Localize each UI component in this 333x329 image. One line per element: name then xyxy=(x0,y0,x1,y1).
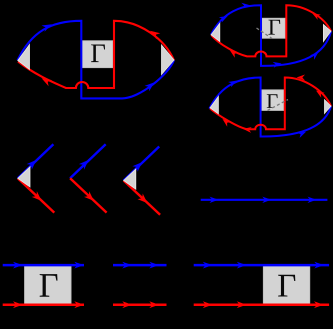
D2 dashed cut line xyxy=(268,100,289,111)
bottom-left red line xyxy=(3,301,84,308)
chevron V3 red outgoing line xyxy=(124,181,161,215)
chevron V3 gray triangle xyxy=(124,169,136,189)
chevron V1 blue incoming line xyxy=(18,144,54,178)
bottom-right red line xyxy=(194,301,329,308)
bottom-left blue line xyxy=(3,262,84,269)
long blue propagator line xyxy=(201,197,328,203)
D2 Gamma box xyxy=(260,90,283,111)
bottom-middle blue line xyxy=(113,262,167,269)
D0 right vertex triangle xyxy=(162,45,175,75)
D2 right vertex triangle xyxy=(325,100,332,114)
bottom-right Gamma box xyxy=(263,265,310,305)
D1 right vertex triangle xyxy=(323,25,331,42)
D2 blue line xyxy=(209,78,331,139)
D1 Gamma box xyxy=(262,18,285,38)
D1 left vertex triangle xyxy=(211,23,220,41)
D2 left vertex triangle xyxy=(210,96,218,113)
chevron V2 blue incoming line xyxy=(70,144,106,178)
bottom-right blue line xyxy=(194,262,329,269)
D0 red hole line with hop over blue xyxy=(18,21,174,88)
D1 blue line xyxy=(211,3,331,68)
chevron V1 red outgoing line xyxy=(18,178,55,212)
D1 dashed cut line xyxy=(257,28,273,39)
chevron V2 red outgoing line xyxy=(70,178,107,212)
chevron V1 gray triangle xyxy=(18,167,30,187)
bottom-middle red line xyxy=(113,301,167,308)
bottom-left Gamma box xyxy=(25,265,72,305)
D1 red line with hop xyxy=(211,5,331,58)
chevron V3 blue incoming line xyxy=(124,147,160,181)
D0 left vertex triangle xyxy=(18,45,30,70)
D0 blue particle line xyxy=(18,21,175,99)
D0 Gamma box xyxy=(82,41,113,68)
D2 red line with hop xyxy=(210,75,331,133)
